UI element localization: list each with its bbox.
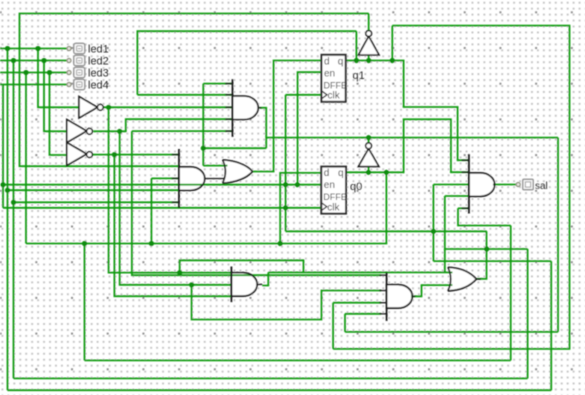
wire q1 drop v356 bbox=[355, 31, 357, 60]
wire v333 bbox=[332, 303, 334, 349]
wire inv3 out row bbox=[93, 154, 179, 156]
svg-text:DFFE: DFFE bbox=[323, 192, 347, 202]
wire v444 bbox=[444, 196, 446, 272]
wire ANDright in5 feed bbox=[458, 207, 469, 209]
wire v191 drop bbox=[192, 285, 382, 320]
wire led3 bus bbox=[25, 73, 27, 244]
wire AND4 in4 feed bbox=[333, 302, 381, 304]
wire v151 bbox=[150, 178, 152, 243]
wire led3 row bbox=[0, 72, 68, 74]
not-gate U1b (inv2) bbox=[67, 120, 87, 143]
wire AND4 out bbox=[411, 285, 452, 296]
wire v527 bbox=[527, 249, 529, 378]
wire led1 bus bbox=[7, 49, 9, 391]
led output led1 bbox=[67, 47, 71, 51]
wire v558 bbox=[557, 138, 559, 332]
not-gate U1a (inv1) bbox=[79, 97, 97, 119]
wire OR1 out bbox=[253, 61, 322, 172]
led output led2 bbox=[67, 59, 71, 63]
gate body fills bbox=[233, 96, 259, 120]
not-gate U2 (above FF1) bbox=[359, 36, 380, 55]
wire invup1 out bbox=[368, 14, 370, 31]
node q1-c bbox=[390, 58, 395, 63]
wire q0 row 243 long bbox=[26, 172, 386, 243]
wire FF1 clk feed row bbox=[286, 94, 322, 96]
wire OR2 out up bbox=[477, 231, 487, 278]
svg-text:clk: clk bbox=[327, 202, 340, 213]
svg-text:sal: sal bbox=[535, 181, 548, 192]
wire clk drop 285 bbox=[285, 95, 287, 232]
wire FF1 en feed bbox=[298, 72, 322, 185]
or-gate U5 (mid) bbox=[223, 160, 226, 183]
and-gate U10 (5-in right) bbox=[468, 154, 470, 213]
svg-text:en: en bbox=[324, 68, 335, 79]
wire led4 row 184 long bbox=[3, 184, 321, 186]
led output led3 bbox=[67, 71, 71, 75]
node or2out-249 bbox=[484, 246, 489, 251]
wire FF2 d feed bbox=[280, 173, 321, 244]
wire q1 to clk row bbox=[137, 31, 356, 95]
svg-text:q: q bbox=[338, 56, 344, 67]
node clk-433 bbox=[431, 229, 436, 234]
svg-text:en: en bbox=[324, 180, 335, 191]
wire led1 row bbox=[0, 48, 68, 50]
wire AND1 out drop bbox=[260, 108, 267, 148]
wire row 261 bbox=[433, 260, 551, 262]
and-gate U8 (5-in bottom-mid) bbox=[386, 273, 388, 321]
node ff2d-243 bbox=[278, 241, 283, 246]
wire q1 branch upper bbox=[333, 26, 569, 349]
wire v203 notq0 bbox=[202, 84, 204, 166]
node and2-in4 bbox=[5, 188, 10, 193]
node and2-in5 bbox=[11, 200, 16, 205]
wire row 249 bbox=[445, 248, 528, 250]
not-gate U6 (above FF2) bbox=[358, 149, 379, 167]
wire q0 row 360 bbox=[85, 359, 511, 361]
not-gate U1c (inv3) bbox=[67, 143, 87, 166]
node led3-inv3 bbox=[47, 70, 52, 75]
node led4-184 bbox=[0, 182, 5, 187]
wire q1 drop v392 bbox=[391, 26, 393, 61]
node inv2-out bbox=[117, 129, 122, 134]
wire AND1 in5 row bbox=[132, 130, 233, 132]
wire in5 jog bbox=[458, 208, 511, 225]
output pin sal bbox=[516, 183, 520, 187]
node q0-drop bbox=[384, 170, 389, 175]
wire v510 bbox=[510, 226, 512, 361]
wire invup2 out stub bbox=[368, 138, 370, 143]
wire q0 row bbox=[346, 119, 469, 172]
wire led2 branch AND2in5 bbox=[14, 201, 180, 203]
svg-text:led4: led4 bbox=[88, 80, 109, 92]
svg-text:DFFE: DFFE bbox=[324, 80, 348, 90]
node q0-243b bbox=[149, 241, 154, 246]
wire AND3 in1 bypass up bbox=[180, 260, 304, 272]
wire led2 to inv2 bbox=[44, 61, 67, 132]
svg-text:d: d bbox=[324, 168, 330, 179]
wire v433 bbox=[432, 185, 434, 262]
svg-text:d: d bbox=[324, 56, 330, 67]
wire led1 branch AND2in4 bbox=[8, 189, 180, 191]
led output led4 bbox=[67, 83, 71, 87]
wire v131 bus down bbox=[132, 131, 381, 275]
wire led2 bus bbox=[13, 61, 15, 379]
node q1-b bbox=[366, 58, 371, 63]
svg-text:q: q bbox=[338, 168, 344, 179]
wire AND2 in3 feed bbox=[151, 177, 179, 179]
svg-text:led1: led1 bbox=[88, 44, 109, 56]
node led2-bus bbox=[11, 58, 16, 63]
wire clk row 231 bbox=[286, 230, 487, 232]
or-gate U9 (bottom-right) bbox=[448, 267, 451, 291]
wire ANDright in4 feed bbox=[445, 195, 469, 197]
and-gate U3 (5-in top) bbox=[232, 79, 234, 137]
wire invup1 in stub bbox=[368, 55, 370, 61]
wire v345 bbox=[344, 314, 346, 332]
wire led4 row bbox=[0, 84, 68, 86]
node inv3-out bbox=[112, 152, 117, 157]
wire inv2 bus down bbox=[120, 131, 232, 284]
wire led4 bus bbox=[2, 85, 4, 208]
node notq0-148 bbox=[201, 146, 206, 151]
wire q1 output row bbox=[346, 61, 469, 161]
wire invup2 in stub bbox=[368, 167, 370, 173]
wire not-q1 top loop bbox=[20, 14, 369, 167]
wire inv1 out row bbox=[103, 106, 232, 108]
node and3-in2 bbox=[189, 282, 194, 287]
svg-text:led3: led3 bbox=[88, 68, 109, 80]
node q0-243a bbox=[82, 241, 87, 246]
wire notq0 row 332 bbox=[345, 331, 558, 333]
wire notq0 row 148 bbox=[203, 147, 266, 149]
wire inv1 bus down bbox=[109, 107, 232, 272]
wire ANDright out bbox=[493, 184, 517, 186]
wire AND1 in1 feed bbox=[203, 83, 232, 85]
flip-flop FF2 (DFFE q0) bbox=[321, 167, 346, 214]
node clk-184 bbox=[283, 182, 288, 187]
wire bottom row 390 bbox=[8, 389, 552, 391]
node inv1-out bbox=[106, 105, 111, 110]
wire AND3 out bbox=[262, 272, 268, 285]
wire AND4 in5 feed bbox=[345, 313, 381, 315]
wire led1 to inv1 bbox=[38, 49, 79, 108]
flip-flop FF1 (DFFE q1) bbox=[322, 55, 346, 102]
node en-net bbox=[295, 182, 300, 187]
wire inv3 bus down bbox=[114, 155, 231, 297]
node notq0-invup2 bbox=[366, 135, 371, 140]
wire v551 bbox=[550, 261, 552, 390]
node and3-in1 bbox=[177, 270, 182, 275]
wire clk row 207 long bbox=[3, 207, 321, 209]
node led2-inv2 bbox=[41, 58, 46, 63]
svg-text:q0: q0 bbox=[350, 181, 362, 193]
wire inv2 out row bbox=[93, 119, 232, 131]
node clk-285 bbox=[283, 205, 288, 210]
node led1-bus bbox=[5, 46, 10, 51]
wire led2 row bbox=[0, 60, 68, 62]
wire notq0 row 137 long bbox=[266, 137, 558, 139]
svg-text:q1: q1 bbox=[353, 70, 365, 82]
node q0-invup2 bbox=[366, 170, 371, 175]
wire AND3 out net row bbox=[268, 271, 452, 273]
wire v84 q0 bus bbox=[84, 244, 86, 361]
wire AND1 in2 feed row bbox=[137, 94, 232, 96]
svg-text:clk: clk bbox=[328, 91, 341, 102]
node led1-inv1 bbox=[35, 46, 40, 51]
wire bottom row 378 bbox=[14, 377, 528, 379]
wire ANDright in3 feed bbox=[433, 184, 469, 186]
wire led3 to inv3 bbox=[50, 73, 67, 156]
node q1-a bbox=[354, 58, 359, 63]
wire OR1 in1 row bbox=[203, 165, 227, 167]
and-gate U7 (3-in bottom) bbox=[230, 267, 232, 303]
svg-text:led2: led2 bbox=[88, 56, 109, 68]
and-gate U4 (5-in mid-left) bbox=[178, 149, 180, 208]
node led3-bus bbox=[23, 70, 28, 75]
